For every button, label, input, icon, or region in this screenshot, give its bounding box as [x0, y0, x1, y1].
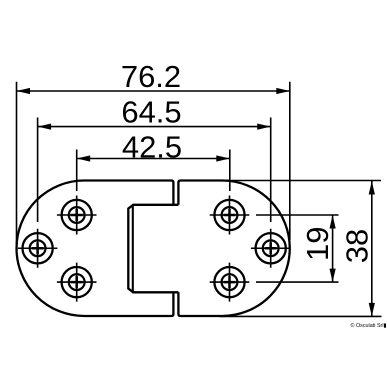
hinge tongue inner edge — [132, 206, 134, 292]
dimension 76.2 line — [17, 90, 290, 92]
hole right-middle — [251, 229, 291, 268]
extension line top 38 — [220, 180, 381, 182]
extension line top 19 — [256, 214, 339, 216]
svg-text:76.2: 76.2 — [121, 59, 181, 94]
extension line right 64.5 — [270, 118, 272, 223]
hole bottom-left — [57, 263, 97, 302]
extension line bottom 19 — [256, 281, 339, 283]
dimension 64.5 arrows — [38, 124, 271, 130]
dimension 64.5 line — [38, 126, 271, 128]
svg-text:38: 38 — [340, 229, 375, 263]
dimension 38 line — [371, 181, 373, 316]
hole top-left — [57, 196, 97, 235]
right leaf outline — [178, 181, 289, 317]
extension line left 64.5 — [37, 118, 39, 223]
dimension 19 line — [332, 215, 334, 282]
extension line left 76.2 — [16, 82, 18, 246]
hinge tongue recess outline — [128, 205, 178, 292]
svg-text:42.5: 42.5 — [122, 130, 182, 165]
left leaf outline — [17, 181, 174, 317]
extension line right 76.2 — [289, 82, 291, 240]
hole bottom-right — [210, 263, 250, 302]
dimension 76.2 arrows — [17, 88, 290, 94]
svg-text:64.5: 64.5 — [121, 95, 181, 130]
extension line right 42.5 — [229, 150, 231, 192]
hole top-right — [210, 196, 250, 235]
dimension 38 arrows — [369, 181, 375, 316]
svg-text:© Osculati Srl▮: © Osculati Srl▮ — [351, 322, 387, 329]
dimension 42.5 arrows — [77, 155, 230, 161]
extension line bottom 38 — [220, 315, 382, 317]
extension line left 42.5 — [76, 150, 78, 192]
hole left-middle — [18, 229, 58, 268]
dimension 42.5 line — [77, 158, 230, 160]
svg-text:19: 19 — [300, 226, 335, 260]
dimension 19 arrows — [330, 215, 336, 282]
